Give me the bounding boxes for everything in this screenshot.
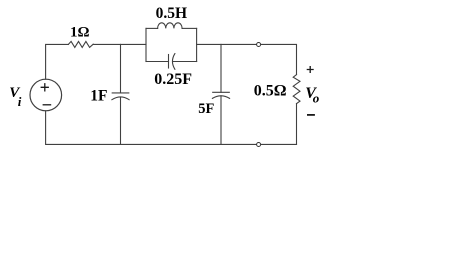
svg-text:0.25F: 0.25F	[154, 71, 192, 88]
svg-text:0.5H: 0.5H	[156, 5, 187, 22]
wire: R2 to bottom rail	[296, 104, 298, 145]
wire: LC block to output terminal	[197, 43, 257, 45]
Vo polarity plus	[307, 66, 315, 115]
wire: bottom rail right of terminal	[261, 143, 297, 145]
node A / wire: top rail to C1	[120, 44, 122, 93]
svg-text:o: o	[313, 91, 320, 106]
inductor L1 (0.5H)	[146, 27, 158, 29]
svg-text:i: i	[18, 94, 22, 109]
wire: terminal to resistor R2	[261, 44, 297, 74]
node B / wire: top rail to C3	[220, 44, 222, 92]
wire: R1 to LC block	[93, 43, 146, 45]
capacitor C1 (1F)	[112, 92, 129, 94]
svg-text:5F: 5F	[198, 101, 214, 117]
resistor R1 (1 ohm)	[68, 41, 93, 47]
Vo polarity minus	[307, 114, 315, 116]
wire: bottom rail	[46, 111, 257, 145]
voltage source Vi	[30, 79, 62, 111]
svg-text:0.5Ω: 0.5Ω	[254, 83, 287, 100]
svg-text:1F: 1F	[90, 87, 107, 104]
wire: C3 to bottom rail	[220, 96, 222, 145]
wire: C1 to bottom rail	[120, 97, 122, 144]
wire: LC block right side	[196, 28, 198, 61]
resistor R2 (0.5 ohm)	[293, 75, 300, 104]
source polarity plus	[41, 83, 52, 105]
svg-text:1Ω: 1Ω	[70, 25, 90, 41]
output terminal (top)	[257, 43, 261, 47]
source polarity minus	[43, 104, 52, 106]
capacitor C3 (5F)	[213, 91, 230, 93]
capacitor C2 (0.25F)	[146, 61, 169, 63]
wire: source top to resistor R1	[46, 44, 69, 79]
wire: LC block left side	[145, 28, 147, 61]
output terminal (bottom)	[257, 143, 261, 147]
